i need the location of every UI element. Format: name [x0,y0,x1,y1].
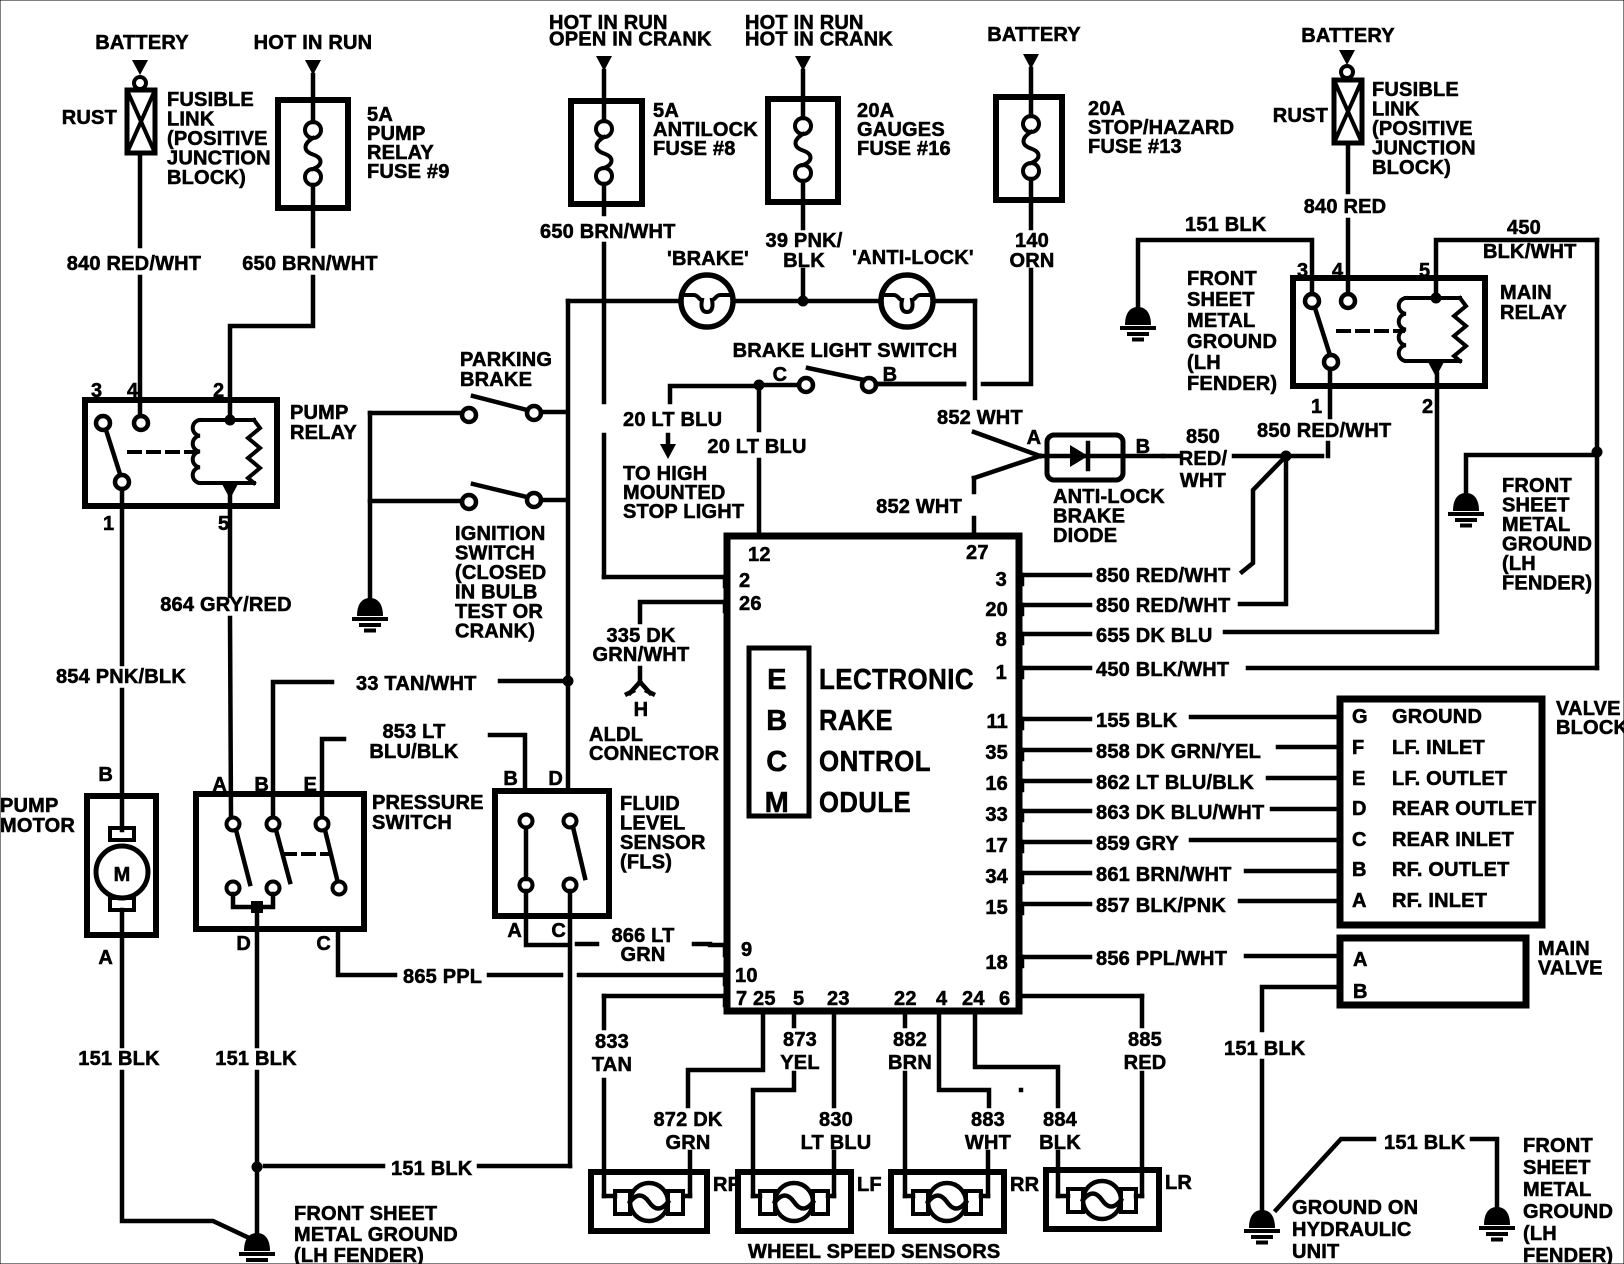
svg-text:1: 1 [996,662,1007,684]
wire to front sheet metal ground (right) [1466,455,1597,493]
svg-text:A: A [98,947,113,969]
svg-text:1: 1 [1311,396,1322,418]
EBCM pin stub [723,996,728,1005]
svg-text:861 BRN/WHT: 861 BRN/WHT [1096,864,1232,886]
svg-text:M: M [114,864,131,886]
EBCM pin stub [723,602,728,611]
svg-text:650 BRN/WHT: 650 BRN/WHT [242,253,378,275]
svg-text:MAIN: MAIN [1500,282,1552,304]
svg-text:FRONT: FRONT [1523,1135,1593,1157]
wire 866 LT GRN (dashed, to EBCM pin 9) [577,925,727,966]
svg-text:LECTRONIC: LECTRONIC [819,664,974,696]
svg-text:8: 8 [996,629,1007,651]
svg-text:11: 11 [986,711,1008,733]
svg-text:PARKING: PARKING [460,349,552,371]
svg-text:16: 16 [985,773,1008,795]
wire 872 DK GRN (EBCM pin 25 to RF sensor) [653,1011,763,1196]
pump relay coil [193,415,260,507]
svg-text:FENDER): FENDER) [1502,573,1592,595]
svg-text:FUSE #8: FUSE #8 [653,138,736,160]
svg-text:B: B [766,705,787,737]
svg-text:850 RED/WHT: 850 RED/WHT [1096,565,1230,587]
svg-text:REAR OUTLET: REAR OUTLET [1392,798,1536,820]
svg-text:863 DK BLU/WHT: 863 DK BLU/WHT [1096,802,1264,824]
node ground junction (bottom left) [252,1162,263,1173]
wire FLS A jumper to C [507,891,568,945]
svg-text:852 WHT: 852 WHT [876,496,962,518]
EBCM pin stub [1020,668,1025,677]
svg-text:FRONT: FRONT [1187,268,1257,290]
wire 852 WHT (lower, to EBCM pin 27) [876,456,1040,536]
svg-text:D: D [236,933,251,955]
svg-text:STOP LIGHT: STOP LIGHT [623,501,744,523]
node BATTERY feed (right) [1301,25,1395,78]
svg-text:BLU/BLK: BLU/BLK [369,741,459,763]
svg-text:HOT IN RUN: HOT IN RUN [254,32,373,54]
node 450 BLK/WHT ground junction [1592,447,1603,458]
svg-text:C: C [1352,829,1367,851]
wire 335 DK GRN/WHT (EBCM pin 26 to ALDL) [593,602,727,666]
svg-text:23: 23 [827,988,850,1010]
wire 833 TAN (EBCM pin 7 to RF sensor) [592,996,727,1196]
svg-text:D: D [1352,798,1367,820]
svg-text:830: 830 [819,1109,853,1131]
svg-text:(FLS): (FLS) [620,852,672,874]
svg-text:151 BLK: 151 BLK [1224,1038,1306,1060]
svg-text:24: 24 [962,988,985,1010]
EBCM pin stub [723,577,728,586]
svg-text:9: 9 [741,939,752,961]
wire 854 PNK/BLK (pump relay 1 to pump motor B) [56,506,186,830]
svg-text:(LH: (LH [1523,1223,1557,1245]
svg-text:840 RED: 840 RED [1304,196,1387,218]
svg-text:450: 450 [1507,217,1541,239]
wire 20 LT BLU (switch C to EBCM pin 12) [707,385,806,536]
svg-text:18: 18 [985,952,1008,974]
EBCM pin stub [723,946,728,955]
brake light switch [733,340,964,392]
svg-text:857 BLK/PNK: 857 BLK/PNK [1096,895,1226,917]
svg-text:B: B [98,764,113,786]
main valve [1340,938,1603,1005]
wire 33 TAN/WHT (pressure switch B to lamp-bus vertical) [273,673,561,817]
wire 151 BLK (hydraulic ground tie to LH fender ground) [1276,1132,1497,1210]
svg-text:(LH: (LH [1187,352,1221,374]
svg-text:33: 33 [985,804,1008,826]
ground (ignition/parking brake) [354,598,386,631]
svg-text:FRONT SHEET: FRONT SHEET [294,1203,437,1225]
wire 151 BLK (pressure switch D to ground junction) [215,929,297,1167]
ground front sheet metal (LH fender, top) [1122,268,1277,395]
svg-text:2: 2 [213,380,224,402]
node HOT IN RUN OPEN IN CRANK feed [549,12,712,101]
svg-text:20 LT BLU: 20 LT BLU [707,436,806,458]
svg-text:B: B [254,774,269,796]
svg-text:MOTOR: MOTOR [0,815,75,837]
svg-text:3: 3 [91,380,102,402]
svg-text:865 PPL: 865 PPL [403,966,482,988]
pressure switch contacts E column [316,818,346,895]
wire switches to ground [368,413,373,598]
svg-text:27: 27 [966,542,989,564]
svg-text:YEL: YEL [780,1052,820,1074]
node lamp bus junction [798,296,809,307]
svg-text:TAN: TAN [592,1054,632,1076]
svg-text:E: E [1352,768,1366,790]
svg-text:1: 1 [103,513,114,535]
wire 39 PNK/BLK (fuse 16 to lamp bus) [766,202,843,297]
svg-text:151 BLK: 151 BLK [1384,1132,1466,1154]
svg-text:RELAY: RELAY [1500,302,1567,324]
svg-text:RAKE: RAKE [819,705,893,737]
svg-text:151 BLK: 151 BLK [391,1158,473,1180]
svg-text:850: 850 [1186,426,1220,448]
svg-text:GRN/WHT: GRN/WHT [593,644,690,666]
svg-text:HYDRAULIC: HYDRAULIC [1292,1219,1412,1241]
wire to ground (LH fender bottom left) [255,1167,260,1233]
svg-text:SHEET: SHEET [1187,289,1255,311]
svg-text:151 BLK: 151 BLK [215,1048,297,1070]
wire 873 YEL (EBCM pin 5 to LF sensor) [753,1011,820,1196]
svg-text:155 BLK: 155 BLK [1096,710,1178,732]
wire 840 RED [1304,143,1387,294]
svg-text:BRAKE: BRAKE [460,369,532,391]
svg-text:RED/: RED/ [1179,448,1228,470]
wire 856 PPL/WHT (EBCM pin 18 to main valve A) [1021,948,1338,970]
svg-text:12: 12 [748,544,771,566]
svg-text:3: 3 [1297,260,1308,282]
svg-text:15: 15 [985,897,1008,919]
svg-text:G: G [1352,706,1368,728]
svg-text:5: 5 [1419,260,1430,282]
svg-text:BLOCK): BLOCK) [1372,157,1451,179]
svg-text:GROUND: GROUND [1523,1201,1613,1223]
svg-text:850 RED/WHT: 850 RED/WHT [1257,420,1391,442]
svg-text:RR: RR [1010,1174,1040,1196]
main relay pin 4 contact [1341,294,1355,308]
svg-text:4: 4 [936,988,948,1010]
node brake light switch C junction [754,380,765,391]
svg-text:7: 7 [736,988,747,1010]
wire 20 LT BLU (to high mounted stop light) [623,386,759,523]
ground front sheet metal (LH fender, bottom left) [241,1203,458,1264]
svg-text:B: B [503,768,518,790]
svg-text:HOT IN CRANK: HOT IN CRANK [745,29,893,51]
wire 650 BRN/WHT (fuse 9 to pump relay pin 2) [230,208,378,418]
svg-text:6: 6 [999,988,1010,1010]
svg-text:FUSE #9: FUSE #9 [367,161,450,183]
svg-text:B: B [1352,859,1367,881]
svg-text:CONNECTOR: CONNECTOR [589,743,720,765]
svg-text:BLK/WHT: BLK/WHT [1483,241,1577,263]
svg-text:BLOCK: BLOCK [1556,717,1624,739]
svg-text:BATTERY: BATTERY [987,24,1081,46]
fuse #13 20A STOP/HAZARD (circuit breaker) [996,97,1234,200]
svg-text:RUST: RUST [1273,105,1328,127]
svg-text:883: 883 [971,1109,1005,1131]
svg-text:GROUND ON: GROUND ON [1292,1197,1418,1219]
node HOT IN RUN HOT IN CRANK feed [745,12,893,99]
svg-text:A: A [1027,427,1042,449]
svg-text:C: C [316,933,331,955]
svg-text:'ANTI-LOCK': 'ANTI-LOCK' [852,247,974,269]
svg-text:RELAY: RELAY [290,422,357,444]
svg-text:856 PPL/WHT: 856 PPL/WHT [1096,948,1227,970]
wire lamp bus vertical (to parking brake / FLS D) [566,301,571,791]
svg-text:UNIT: UNIT [1292,1241,1339,1263]
wire 155 BLK (EBCM to valve block) [1021,710,1338,732]
svg-text:SHEET: SHEET [1523,1157,1591,1179]
svg-text:840 RED/WHT: 840 RED/WHT [67,253,201,275]
wire 850 RED/WHT (diode B output) [1163,426,1328,492]
svg-text:LF. OUTLET: LF. OUTLET [1392,768,1507,790]
svg-text:FENDER): FENDER) [1523,1245,1613,1264]
svg-text:OPEN IN CRANK: OPEN IN CRANK [549,29,712,51]
svg-text:853 LT: 853 LT [382,721,445,743]
valve block [1340,698,1624,925]
wire lamp bus 39 PNK/BLK [568,301,975,398]
node 33 TAN/WHT junction [563,676,574,687]
svg-text:DIODE: DIODE [1053,525,1117,547]
svg-text:RED: RED [1124,1052,1167,1074]
svg-text:A: A [507,920,522,942]
ground front sheet metal (LH fender, bottom right) [1481,1135,1613,1264]
svg-text:854 PNK/BLK: 854 PNK/BLK [56,666,186,688]
wire 151 BLK (main valve B to hydraulic ground) [1224,987,1338,1210]
svg-text:22: 22 [894,988,917,1010]
svg-text:ODULE: ODULE [819,787,911,819]
wire 862 LT BLU/BLK (EBCM to valve block) [1021,772,1338,794]
svg-text:D: D [548,768,563,790]
svg-text:BATTERY: BATTERY [95,32,189,54]
node 850 RED/WHT junction [1281,451,1292,462]
wire 885 RED (EBCM pin 6 to LR sensor) [1019,996,1166,1196]
svg-text:M: M [765,787,790,819]
svg-text:C: C [551,920,566,942]
svg-text:872 DK: 872 DK [653,1109,722,1131]
wire 884 BLK (EBCM pin 24 to LR sensor) [975,1011,1081,1196]
wire 852 WHT (upper) [937,407,1040,456]
EBCM pin stub [723,975,728,984]
svg-text:VALVE: VALVE [1538,958,1603,980]
svg-text:B: B [1136,436,1151,458]
svg-text:WHEEL SPEED SENSORS: WHEEL SPEED SENSORS [748,1241,1000,1263]
wire 450 BLK/WHT (EBCM pin 1 to main relay pin 5 / ground) [1021,659,1597,681]
node HOT IN RUN feed [254,32,373,100]
svg-text:882: 882 [893,1029,927,1051]
indicator lamp 'BRAKE' [667,248,749,327]
svg-text:H: H [634,699,649,721]
svg-text:PUMP: PUMP [290,402,349,424]
svg-text:LF. INLET: LF. INLET [1392,737,1485,759]
svg-text:METAL: METAL [1187,310,1255,332]
svg-text:PUMP: PUMP [0,795,59,817]
svg-text:F: F [1352,737,1364,759]
wire 865 PPL (pressure switch C to EBCM pin 10) [316,929,727,988]
svg-text:(LH FENDER): (LH FENDER) [294,1245,424,1264]
svg-text:RF. OUTLET: RF. OUTLET [1392,859,1510,881]
svg-text:SWITCH: SWITCH [372,812,452,834]
wire 140 ORN (fuse 13 to brake light switch B) [876,200,1055,384]
wire FLS C to ground junction (151 BLK row) [551,891,570,1166]
svg-text:METAL GROUND: METAL GROUND [294,1224,458,1246]
svg-text:885: 885 [1128,1029,1162,1051]
svg-text:20 LT BLU: 20 LT BLU [623,409,722,431]
wire 151 BLK (bottom row to FLS C) [265,1158,570,1180]
svg-text:655 DK BLU: 655 DK BLU [1096,625,1212,647]
svg-text:39 PNK/: 39 PNK/ [766,230,843,252]
svg-text:BRAKE LIGHT SWITCH: BRAKE LIGHT SWITCH [733,340,958,362]
svg-text:10: 10 [735,965,758,987]
wire 650 BRN/WHT (fuse 8 to EBCM pin 2) [540,204,727,577]
fluid level sensor FLS [495,768,706,916]
main relay pin 3 contact [1305,294,1319,308]
svg-text:LR: LR [1165,1172,1192,1194]
svg-text:859 GRY: 859 GRY [1096,833,1179,855]
wire 840 RED/WHT [67,153,201,416]
svg-text:650 BRN/WHT: 650 BRN/WHT [540,221,676,243]
ignition switch [370,484,566,643]
svg-text:B: B [1353,981,1368,1003]
svg-text:151 BLK: 151 BLK [78,1048,160,1070]
wire 863 DK BLU/WHT (EBCM to valve block) [1021,802,1338,824]
svg-text:35: 35 [985,742,1008,764]
node BATTERY feed (top left) [95,32,189,89]
EBCM module box [727,536,1019,1011]
main relay switch arm [1315,308,1338,386]
svg-text:34: 34 [985,866,1008,888]
wire 859 GRY (EBCM to valve block) [1021,833,1338,855]
svg-text:BLOCK): BLOCK) [167,167,246,189]
wire 857 BLK/PNK (EBCM to valve block) [1021,895,1338,917]
wire 151 BLK (pump motor A to ground) [78,935,247,1237]
svg-text:5: 5 [793,988,804,1010]
svg-text:2: 2 [739,570,750,592]
svg-text:FUSE #13: FUSE #13 [1088,136,1182,158]
wheel speed sensor LF [738,1172,882,1231]
svg-text:17: 17 [985,835,1008,857]
indicator lamp 'ANTI-LOCK' [852,247,974,327]
svg-text:858 DK GRN/YEL: 858 DK GRN/YEL [1096,741,1261,763]
svg-text:METAL: METAL [1523,1179,1591,1201]
wire 850 RED/WHT (junction to EBCM pin 20) [1021,461,1286,617]
svg-text:884: 884 [1043,1109,1078,1131]
anti-lock brake diode [1027,427,1165,547]
EBCM name text [819,664,974,819]
wire 850 RED/WHT (junction to EBCM pin 3) [1021,456,1286,1090]
pressure switch [196,774,484,929]
svg-text:33 TAN/WHT: 33 TAN/WHT [356,673,477,695]
pump relay actuator dashed link [129,450,197,454]
svg-text:RUST: RUST [62,107,117,129]
svg-text:CRANK): CRANK) [455,621,535,643]
svg-text:FUSE #16: FUSE #16 [857,138,951,160]
main relay coil [1399,278,1466,386]
svg-text:GRN: GRN [620,944,665,966]
svg-text:C: C [766,746,787,778]
ALDL connector pin H [589,668,720,765]
svg-text:140: 140 [1015,230,1049,252]
pump motor M1 [0,795,156,935]
svg-text:450 BLK/WHT: 450 BLK/WHT [1096,659,1229,681]
svg-text:864 GRY/RED: 864 GRY/RED [160,594,292,616]
svg-text:862 LT BLU/BLK: 862 LT BLU/BLK [1096,772,1254,794]
wire 864 GRY/RED (pump relay 5 to pressure switch A) [160,506,292,817]
pressure switch D output junction [233,894,273,929]
svg-text:RF. INLET: RF. INLET [1392,890,1487,912]
svg-text:E: E [303,774,317,796]
svg-text:833: 833 [595,1031,629,1053]
fuse #8 5A ANTILOCK (circuit breaker) [571,100,758,204]
fuse #16 20A GAUGES (circuit breaker) [768,99,951,202]
wire 883 WHT (EBCM pin 4 to RR sensor) [939,1011,1011,1196]
svg-text:4: 4 [1332,260,1344,282]
svg-text:ONTROL: ONTROL [819,746,931,778]
main relay actuator dashed link [1338,329,1403,333]
svg-text:852 WHT: 852 WHT [937,407,1023,429]
svg-text:A: A [1353,949,1368,971]
pump relay pin 4 contact [134,416,148,430]
wire 151 BLK (to main relay pin 3) [1138,214,1312,307]
svg-text:4: 4 [127,380,139,402]
EBCM letter box E B C M [749,648,809,819]
svg-text:C: C [773,364,788,386]
svg-text:20: 20 [985,599,1008,621]
svg-text:GROUND: GROUND [1187,331,1277,353]
wire 882 BRN (EBCM pin 22 to RR sensor) [888,1011,932,1196]
svg-text:LF: LF [857,1174,882,1196]
svg-text:A: A [212,774,227,796]
svg-text:E: E [767,664,787,696]
svg-text:BRN: BRN [888,1052,932,1074]
pressure switch contacts A column [227,818,251,895]
wire 830 LT BLU (EBCM pin 23 to LF sensor) [801,1011,872,1196]
EBCM pin stub [1020,605,1025,614]
svg-text:FENDER): FENDER) [1187,373,1277,395]
EBCM pin stub [1020,575,1025,584]
pump relay pin 3 contact [96,416,110,430]
main relay [1293,260,1567,418]
svg-text:850 RED/WHT: 850 RED/WHT [1096,595,1230,617]
wire 655 DK BLU (EBCM pin 8 to main relay pin 2) [1021,386,1437,647]
wire 858 DK GRN/YEL (EBCM to valve block) [1021,741,1338,763]
wire 450 BLK/WHT (main relay pin 5 leg) [1436,217,1597,668]
pressure switch contacts B column [267,818,291,895]
svg-text:151 BLK: 151 BLK [1185,214,1267,236]
svg-text:26: 26 [739,593,762,615]
wheel speed sensor RF [591,1172,740,1231]
wheel speed sensor RR [891,1172,1040,1231]
ground front sheet metal (LH fender, right) [1450,475,1592,595]
svg-text:5: 5 [218,513,229,535]
parking brake switch [370,349,566,422]
fusible link (positive junction block) left [62,89,271,189]
FLS D-C switch contacts [564,815,586,892]
wire 861 BRN/WHT (EBCM to valve block) [1021,864,1338,886]
wheel speed sensor LR [1046,1170,1192,1229]
FLS B-A through contacts [520,815,533,892]
pressure switch dashed link [284,852,330,856]
wire 853 LT BLU/BLK (pressure switch E to FLS B) [322,721,525,817]
svg-text:REAR INLET: REAR INLET [1392,829,1514,851]
svg-text:GROUND: GROUND [1392,706,1482,728]
fuse #9 5A PUMP RELAY (circuit breaker) [278,100,450,208]
svg-text:873: 873 [783,1029,817,1051]
svg-text:3: 3 [996,569,1007,591]
pump relay switch arm [106,430,129,506]
svg-text:2: 2 [1422,396,1433,418]
fusible link (positive junction block) right [1273,79,1476,179]
